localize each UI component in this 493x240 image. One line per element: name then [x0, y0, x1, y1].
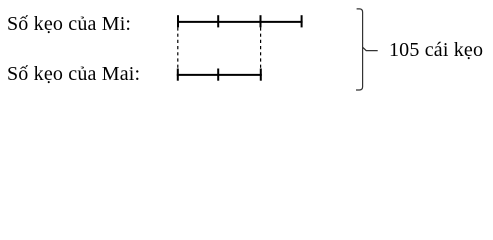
label: Số kẹo của Mi — [7, 14, 131, 34]
wire: left dashed vertical connector — [177, 27, 179, 68]
wire: Mi bar horizontal line — [177, 21, 303, 23]
node: Mai bar tick 1 (left end) — [177, 69, 179, 81]
node: Mi bar tick 3 — [260, 15, 262, 27]
label: 105 cái kẹo — [389, 40, 483, 60]
node: Mai bar tick 3 (right end) — [260, 69, 262, 81]
label: Số kẹo của Mai — [7, 64, 140, 84]
node: Mi bar tick 1 (left end) — [177, 15, 179, 27]
wire: right dashed vertical connector — [260, 27, 262, 68]
node: Mi bar tick 2 — [217, 15, 219, 27]
brace: right curly brace for total — [356, 9, 378, 90]
wire: Mai bar horizontal line — [177, 74, 262, 76]
node: Mai bar tick 2 — [217, 69, 219, 81]
node: Mi bar tick 4 (right end) — [301, 15, 303, 27]
